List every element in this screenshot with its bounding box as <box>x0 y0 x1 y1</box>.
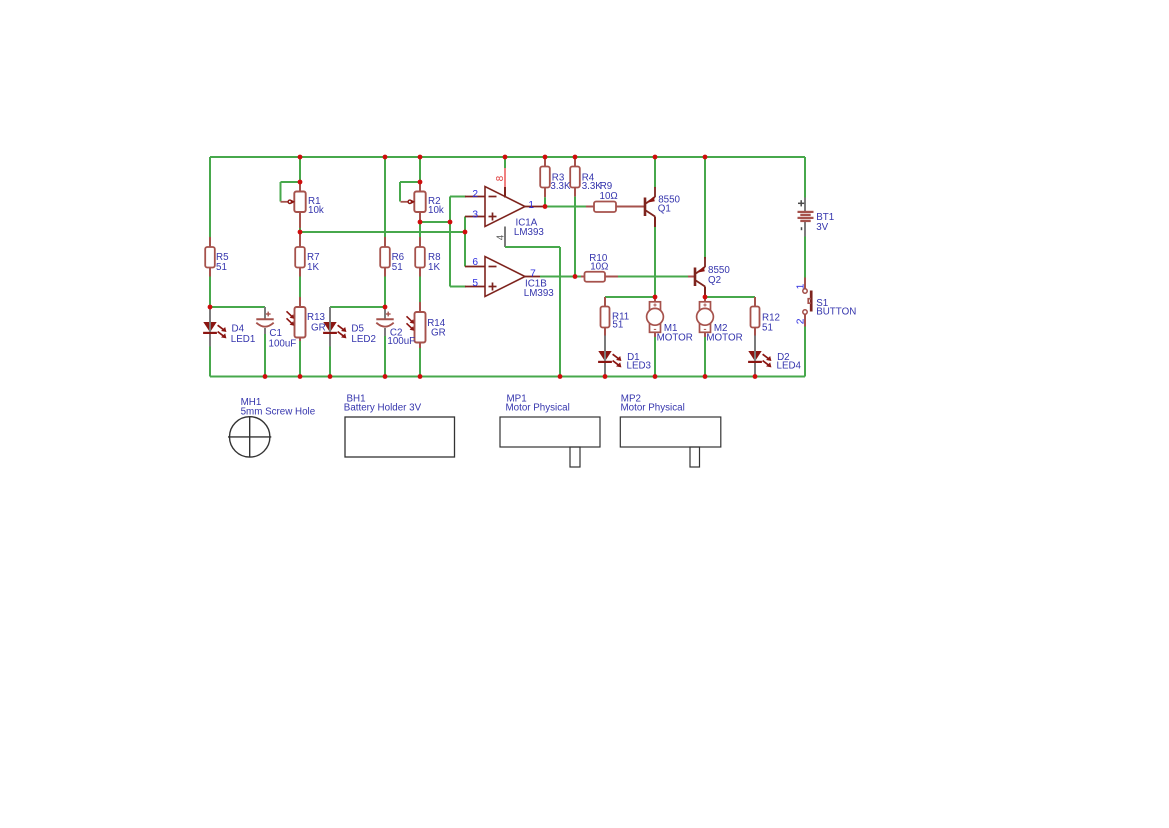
svg-text:10Ω: 10Ω <box>590 262 608 273</box>
svg-text:7: 7 <box>530 269 536 280</box>
svg-text:LED1: LED1 <box>231 334 256 345</box>
svg-text:51: 51 <box>762 322 773 333</box>
svg-text:D5: D5 <box>351 323 364 334</box>
svg-text:LM393: LM393 <box>514 227 545 238</box>
svg-text:100uF: 100uF <box>269 338 297 349</box>
svg-text:Battery Holder 3V: Battery Holder 3V <box>344 402 422 413</box>
svg-text:5mm Screw Hole: 5mm Screw Hole <box>241 406 316 417</box>
svg-text:D4: D4 <box>232 323 245 334</box>
svg-text:MOTOR: MOTOR <box>706 333 742 344</box>
svg-text:C1: C1 <box>269 328 282 339</box>
svg-text:10k: 10k <box>428 205 444 216</box>
svg-text:3V: 3V <box>816 222 828 233</box>
svg-text:5: 5 <box>472 278 478 289</box>
svg-text:1: 1 <box>796 283 807 289</box>
svg-text:GR: GR <box>311 322 326 333</box>
svg-text:LED3: LED3 <box>627 360 652 371</box>
svg-text:1K: 1K <box>428 262 440 273</box>
svg-text:LED2: LED2 <box>351 334 376 345</box>
svg-text:100uF: 100uF <box>387 336 415 347</box>
svg-text:4: 4 <box>495 234 506 240</box>
svg-text:51: 51 <box>216 262 227 273</box>
svg-text:BUTTON: BUTTON <box>816 307 856 318</box>
svg-text:3.3K: 3.3K <box>550 181 571 192</box>
svg-text:8: 8 <box>495 175 506 181</box>
svg-text:10Ω: 10Ω <box>600 191 618 202</box>
svg-text:1: 1 <box>528 200 534 211</box>
svg-text:Motor Physical: Motor Physical <box>621 402 685 413</box>
svg-text:2: 2 <box>472 189 478 200</box>
svg-text:51: 51 <box>612 319 623 330</box>
svg-text:Motor Physical: Motor Physical <box>506 402 570 413</box>
svg-text:GR: GR <box>431 328 446 339</box>
svg-text:3: 3 <box>472 209 478 220</box>
svg-text:Q2: Q2 <box>708 275 721 286</box>
svg-text:LM393: LM393 <box>524 288 555 299</box>
svg-text:2: 2 <box>796 318 807 324</box>
svg-text:1K: 1K <box>307 262 319 273</box>
svg-text:LED4: LED4 <box>777 360 802 371</box>
svg-text:51: 51 <box>392 262 403 273</box>
svg-text:MOTOR: MOTOR <box>657 333 693 344</box>
svg-text:6: 6 <box>472 257 478 268</box>
svg-text:10k: 10k <box>308 205 324 216</box>
svg-text:Q1: Q1 <box>658 203 671 214</box>
